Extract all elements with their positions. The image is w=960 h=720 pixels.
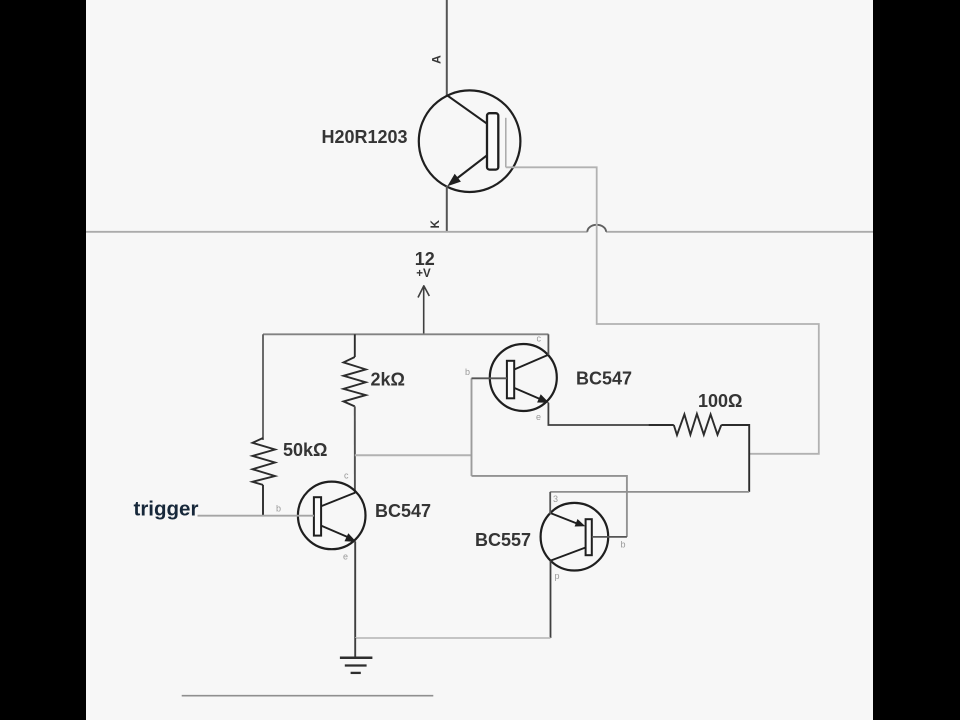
wire main horizontal rail with hop xyxy=(86,225,873,232)
svg-text:12: 12 xyxy=(415,249,435,269)
wire cathode xyxy=(446,186,448,231)
transistor Q2 BC547 xyxy=(472,334,649,425)
svg-text:100Ω: 100Ω xyxy=(698,391,742,411)
wire ground to Q3 collector (light) xyxy=(355,637,550,639)
svg-text:K: K xyxy=(430,219,442,228)
svg-text:trigger: trigger xyxy=(134,498,199,521)
wire trigger to Q1 base xyxy=(198,515,314,517)
svg-text:b: b xyxy=(276,504,281,514)
wire bottom edge line xyxy=(182,695,434,697)
svg-text:p: p xyxy=(555,571,560,581)
svg-text:e: e xyxy=(343,552,348,562)
svg-text:b: b xyxy=(465,367,470,377)
svg-text:BC557: BC557 xyxy=(475,530,531,550)
svg-text:c: c xyxy=(537,334,542,344)
svg-text:e: e xyxy=(536,412,541,422)
svg-text:A: A xyxy=(429,55,443,64)
svg-text:BC547: BC547 xyxy=(576,369,632,389)
transistor Q1 BC547 xyxy=(298,482,366,638)
wire anode (top vertical) xyxy=(446,0,448,96)
svg-text:b: b xyxy=(621,540,626,550)
resistor R2 2k xyxy=(344,334,366,493)
power arrow +V xyxy=(418,286,429,335)
svg-text:BC547: BC547 xyxy=(375,501,431,521)
resistor R1 50k xyxy=(253,438,276,516)
wire rail down to 50k xyxy=(262,334,264,440)
transistor Q3 BC557 xyxy=(541,492,627,638)
svg-text:2kΩ: 2kΩ xyxy=(371,370,405,390)
transistor U1 H20R1203 xyxy=(419,90,521,192)
wire top rail xyxy=(263,333,549,335)
svg-text:3: 3 xyxy=(553,494,558,504)
wire gate net (gray) xyxy=(506,167,819,454)
svg-text:+V: +V xyxy=(416,268,431,280)
wire Q3 emitter net xyxy=(550,491,749,493)
wire Q1 emitter down to ground xyxy=(354,638,356,657)
wire node junction 2k/Q1-collector to Q2 base and Q3 base xyxy=(355,378,627,537)
ground xyxy=(340,658,373,673)
svg-text:H20R1203: H20R1203 xyxy=(322,127,408,147)
resistor R3 100Ω xyxy=(648,414,749,492)
svg-text:c: c xyxy=(344,471,349,481)
svg-text:50kΩ: 50kΩ xyxy=(283,440,327,460)
